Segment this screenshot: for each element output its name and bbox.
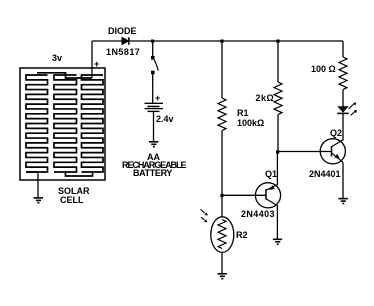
node junction R1 top bbox=[220, 40, 223, 43]
wire 100 ohm to LED bbox=[342, 90, 344, 107]
LED D2 bbox=[337, 106, 348, 113]
label AA RECHARGEABLE BATTERY bbox=[122, 152, 186, 178]
svg-text:CELL: CELL bbox=[60, 195, 84, 205]
svg-text:+: + bbox=[155, 93, 160, 103]
svg-text:2.4v: 2.4v bbox=[156, 114, 174, 124]
ground Q1 bbox=[273, 239, 282, 244]
resistor 100 ohm bbox=[339, 57, 347, 90]
node junction Q2 base net bbox=[276, 150, 279, 153]
transistor Q2 2N4401 bbox=[320, 139, 345, 164]
wire R2 to ground bbox=[221, 252, 223, 273]
resistor R1 bbox=[218, 98, 226, 131]
svg-text:Q2: Q2 bbox=[330, 128, 342, 138]
svg-text:2N4403: 2N4403 bbox=[241, 209, 275, 219]
wire 2k bottom to node bbox=[277, 115, 279, 152]
wire top bus bbox=[92, 40, 343, 42]
svg-text:100 Ω: 100 Ω bbox=[311, 64, 336, 74]
svg-text:+: + bbox=[94, 59, 99, 69]
ground solar bbox=[34, 198, 44, 203]
wire right branch down bbox=[342, 41, 344, 57]
wire LED to Q2 collector bbox=[342, 113, 344, 140]
wire R1 bottom to node bbox=[221, 131, 223, 217]
wire 2k branch top bbox=[277, 41, 279, 82]
svg-text:3v: 3v bbox=[52, 53, 62, 63]
svg-text:R1: R1 bbox=[237, 108, 249, 118]
ground Q2 bbox=[339, 199, 348, 204]
wire node to Q1 base bbox=[222, 194, 266, 196]
wire switch to battery bbox=[152, 74, 154, 103]
wire Q1 collector to ground bbox=[276, 205, 278, 239]
svg-text:100kΩ: 100kΩ bbox=[237, 118, 264, 128]
wire Q2 emitter to ground bbox=[342, 163, 344, 199]
wire R1 branch top bbox=[221, 41, 223, 98]
svg-text:Q1: Q1 bbox=[265, 169, 277, 179]
wire node down to Q1 emitter bbox=[276, 152, 278, 185]
svg-text:DIODE: DIODE bbox=[108, 26, 137, 36]
diode D1 1N5817 bbox=[122, 37, 129, 44]
LED light arrows bbox=[349, 102, 358, 115]
photoresistor R2 bbox=[211, 217, 234, 253]
node junction top switch bbox=[151, 40, 154, 43]
wire solar plus riser bbox=[91, 41, 93, 78]
wire switch branch top bbox=[152, 41, 154, 56]
light arrows into R2 bbox=[201, 209, 208, 222]
ground battery bbox=[149, 142, 158, 147]
svg-text:BATTERY: BATTERY bbox=[133, 168, 172, 178]
wire node to Q2 base bbox=[278, 151, 332, 153]
switch S1 bbox=[151, 56, 158, 74]
svg-text:2N4401: 2N4401 bbox=[309, 169, 341, 179]
svg-text:1N5817: 1N5817 bbox=[106, 47, 140, 57]
wire battery to ground bbox=[153, 111, 155, 141]
resistor 2k bbox=[274, 82, 282, 115]
transistor Q1 2N4403 bbox=[255, 183, 280, 208]
wire ground drop from solar cell bbox=[37, 172, 39, 198]
label SOLAR CELL bbox=[58, 186, 90, 205]
svg-text:R2: R2 bbox=[236, 230, 248, 240]
ground R2 bbox=[218, 274, 227, 279]
node junction R1 bottom bbox=[220, 194, 223, 197]
solar cell PV1 bbox=[20, 68, 105, 180]
battery B1 bbox=[145, 103, 164, 111]
node junction 2k top bbox=[276, 40, 279, 43]
svg-text:2kΩ: 2kΩ bbox=[256, 93, 275, 103]
